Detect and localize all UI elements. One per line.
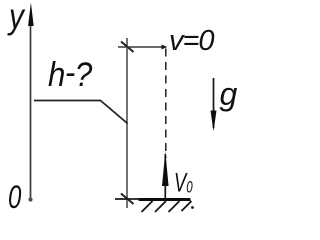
ground hatch 3 [169, 201, 180, 212]
dimension line (vertical) [126, 38, 128, 208]
svg-text:g: g [220, 76, 238, 112]
svg-text:y: y [7, 0, 25, 36]
dimension extension line bottom [115, 198, 141, 200]
dimension tick top [121, 42, 134, 53]
svg-text:h-?: h-? [48, 53, 93, 94]
y-axis arrowhead [28, 3, 34, 27]
leader line for h (horizontal part) [34, 100, 101, 102]
svg-text:V0: V0 [174, 167, 193, 197]
ground hatch 1 [142, 201, 153, 212]
origin point marker [28, 197, 32, 201]
vector v0 shaft [164, 154, 166, 199]
ground hatch 4 [182, 201, 192, 211]
vector g shaft [213, 78, 215, 128]
leader line for h (diagonal part) [101, 101, 128, 124]
svg-text:0: 0 [8, 179, 22, 215]
vector v0 arrowhead [162, 152, 169, 187]
vector g arrowhead [211, 111, 217, 132]
dimension extension line top [118, 46, 166, 48]
dimension tick bottom [121, 194, 134, 205]
small arrow at v=0 point [162, 45, 168, 50]
ground hatch 2 [155, 201, 166, 212]
y-axis line [30, 18, 32, 200]
svg-text:v=0: v=0 [169, 25, 214, 57]
dashed trajectory line [165, 49, 167, 159]
ground line [139, 198, 191, 201]
period mark [191, 206, 194, 209]
